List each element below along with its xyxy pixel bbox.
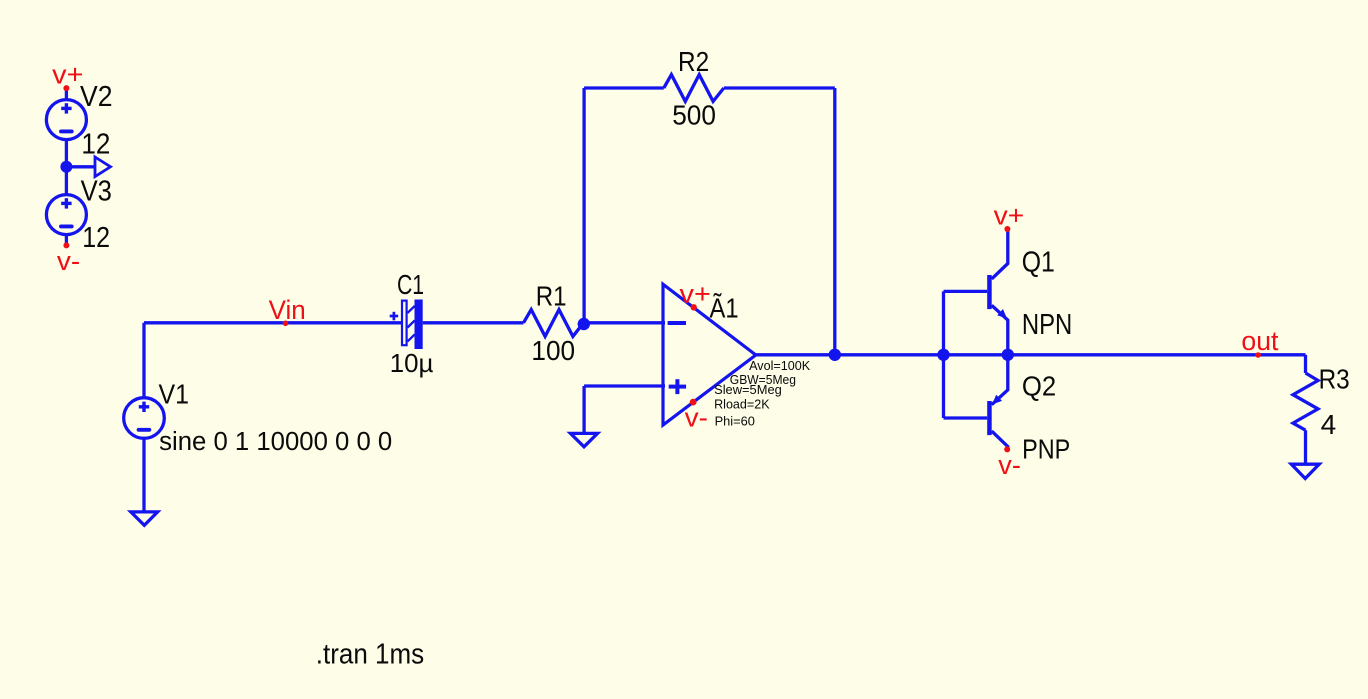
svg-text:Vin: Vin <box>269 295 306 325</box>
svg-text:NPN: NPN <box>1022 309 1072 341</box>
svg-text:Avol=100K: Avol=100K <box>749 358 811 373</box>
svg-text:Rload=2K: Rload=2K <box>714 397 770 412</box>
svg-text:v-: v- <box>685 403 708 433</box>
svg-text:Phi=60: Phi=60 <box>715 414 755 429</box>
svg-text:sine 0 1 10000 0 0 0: sine 0 1 10000 0 0 0 <box>159 428 392 456</box>
svg-text:out: out <box>1241 326 1278 356</box>
svg-text:V3: V3 <box>81 175 112 207</box>
svg-text:.tran 1ms: .tran 1ms <box>316 639 424 671</box>
svg-text:100: 100 <box>531 335 575 366</box>
svg-text:12: 12 <box>82 222 110 254</box>
svg-text:10µ: 10µ <box>390 348 434 378</box>
svg-text:12: 12 <box>81 129 110 161</box>
svg-text:v-: v- <box>998 450 1021 480</box>
svg-text:Q2: Q2 <box>1022 370 1056 401</box>
svg-text:4: 4 <box>1321 409 1337 440</box>
svg-text:v-: v- <box>57 246 80 276</box>
svg-text:Slew=5Meg: Slew=5Meg <box>714 382 782 397</box>
svg-text:Ã1: Ã1 <box>710 292 739 323</box>
svg-text:R1: R1 <box>536 281 567 312</box>
svg-text:v+: v+ <box>52 60 83 90</box>
svg-text:R3: R3 <box>1319 364 1350 395</box>
svg-text:PNP: PNP <box>1022 433 1070 464</box>
svg-text:V2: V2 <box>80 81 113 113</box>
svg-text:v+: v+ <box>680 279 711 309</box>
svg-text:C1: C1 <box>397 269 424 300</box>
svg-text:500: 500 <box>672 99 716 130</box>
svg-text:v+: v+ <box>994 200 1025 230</box>
svg-text:Q1: Q1 <box>1022 246 1055 278</box>
svg-text:R2: R2 <box>678 46 709 77</box>
svg-text:V1: V1 <box>159 378 190 409</box>
